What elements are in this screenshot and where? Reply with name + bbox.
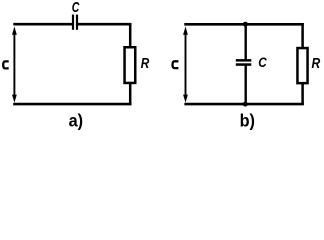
svg-text:R: R — [312, 55, 321, 71]
wire : b right branch upper vertical (corner to resistor top) — [301, 23, 304, 48]
svg-text:R: R — [141, 55, 150, 71]
wire : b bottom wire — [184, 103, 303, 106]
wire : b capacitor branch lower vertical — [244, 66, 246, 106]
wire : a right branch lower vertical (resistor bottom to bottom wire) — [129, 84, 132, 105]
voltage arrow U (circuit b, double-headed) — [183, 27, 188, 103]
svg-text:C: C — [258, 55, 267, 70]
svg-text:b): b) — [240, 111, 255, 131]
svg-text:C: C — [72, 0, 80, 15]
resistor R1 (circuit a) — [125, 47, 136, 83]
label U (circuit b, rotated 90deg) — [173, 61, 179, 68]
wire : a top wire left segment (source to capacitor) — [13, 23, 74, 26]
capacitor C1 series gap mask — [74, 20, 76, 28]
node junction dot (top, circuit b) — [243, 22, 248, 27]
wire : a bottom wire — [13, 103, 131, 106]
wire : b top wire — [184, 23, 303, 26]
label U (circuit a, rotated 90deg) — [3, 61, 9, 68]
svg-text:a): a) — [69, 111, 83, 131]
resistor R2 (circuit b) — [297, 48, 307, 83]
wire : a right branch upper vertical (corner to resistor top) — [129, 23, 132, 47]
wire : b capacitor branch upper vertical — [244, 23, 246, 60]
wire : b right branch lower vertical (resistor bottom to bottom wire) — [301, 84, 304, 105]
voltage arrow U (circuit a, double-headed) — [12, 27, 17, 103]
node junction dot (bottom, circuit b) — [243, 102, 248, 107]
capacitor C1 (vertical plates in top wire) — [72, 15, 78, 30]
capacitor C2 (horizontal plates, shunt branch) — [236, 59, 252, 66]
wire : a top wire right segment (capacitor to top-right corner) — [76, 23, 132, 26]
